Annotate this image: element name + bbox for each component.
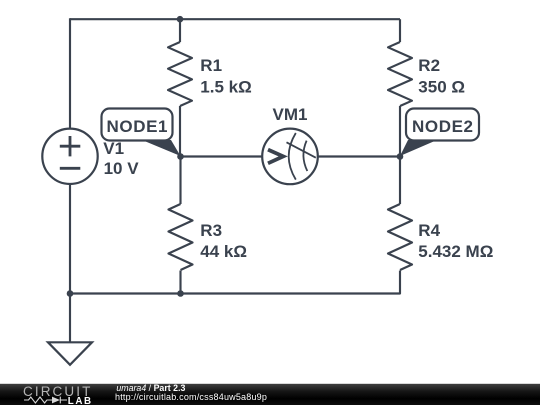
svg-text:1.5 kΩ: 1.5 kΩ xyxy=(200,77,251,96)
wire left rail lower xyxy=(69,184,71,294)
wire R4 top lead xyxy=(399,157,401,205)
svg-text:350 Ω: 350 Ω xyxy=(418,77,465,96)
wire VM1 right xyxy=(318,155,400,157)
wire R1 top lead xyxy=(179,19,181,42)
node label NODE1 callout box xyxy=(102,109,173,141)
node dot bottom rail left xyxy=(67,290,74,297)
node A (NODE1 junction) xyxy=(177,153,184,160)
svg-text:5.432 MΩ: 5.432 MΩ xyxy=(418,242,493,261)
node label NODE2 callout box xyxy=(406,109,479,141)
node label NODE2 pointer xyxy=(400,140,437,156)
wire R3 top lead xyxy=(179,157,181,205)
svg-text:R3: R3 xyxy=(200,221,222,240)
svg-text:10 V: 10 V xyxy=(104,159,140,178)
svg-text:http://circuitlab.com/css84uw5: http://circuitlab.com/css84uw5a8u9p xyxy=(115,392,267,402)
svg-text:NODE2: NODE2 xyxy=(412,117,474,136)
voltage source V1 xyxy=(42,129,97,184)
wire left rail upper xyxy=(69,18,71,128)
wire R2 top lead xyxy=(399,19,401,42)
svg-text:R2: R2 xyxy=(418,56,440,75)
svg-text:NODE1: NODE1 xyxy=(107,117,169,136)
svg-text:R4: R4 xyxy=(418,221,440,240)
svg-text:VM1: VM1 xyxy=(273,105,308,124)
wire VM1 left xyxy=(181,155,263,157)
logo diode cathode xyxy=(60,397,67,404)
svg-text:V1: V1 xyxy=(103,139,124,158)
svg-text:44 kΩ: 44 kΩ xyxy=(200,242,247,261)
wire R1 bottom lead xyxy=(179,106,181,157)
node dot top rail R1 junction xyxy=(177,16,184,23)
resistor R4 xyxy=(388,204,412,270)
svg-text:R1: R1 xyxy=(200,56,222,75)
node dot bottom rail R3 junction xyxy=(177,290,184,297)
resistor R2 xyxy=(388,42,412,106)
footer bar xyxy=(0,384,540,405)
resistor R1 xyxy=(168,42,192,106)
node B (NODE2 junction) xyxy=(397,153,404,160)
wire R2 bottom lead xyxy=(399,106,401,157)
wire R3 bottom lead xyxy=(179,271,181,294)
logo squiggle wire xyxy=(24,397,52,403)
wire top rail xyxy=(70,18,400,20)
logo diode xyxy=(52,397,60,404)
node label NODE1 pointer xyxy=(142,140,181,156)
wire ground stem xyxy=(69,294,71,343)
resistor R3 xyxy=(169,204,193,270)
wire bottom rail xyxy=(70,271,400,294)
svg-text:LAB: LAB xyxy=(68,396,93,405)
voltmeter VM1 xyxy=(262,129,318,185)
ground xyxy=(48,342,92,365)
